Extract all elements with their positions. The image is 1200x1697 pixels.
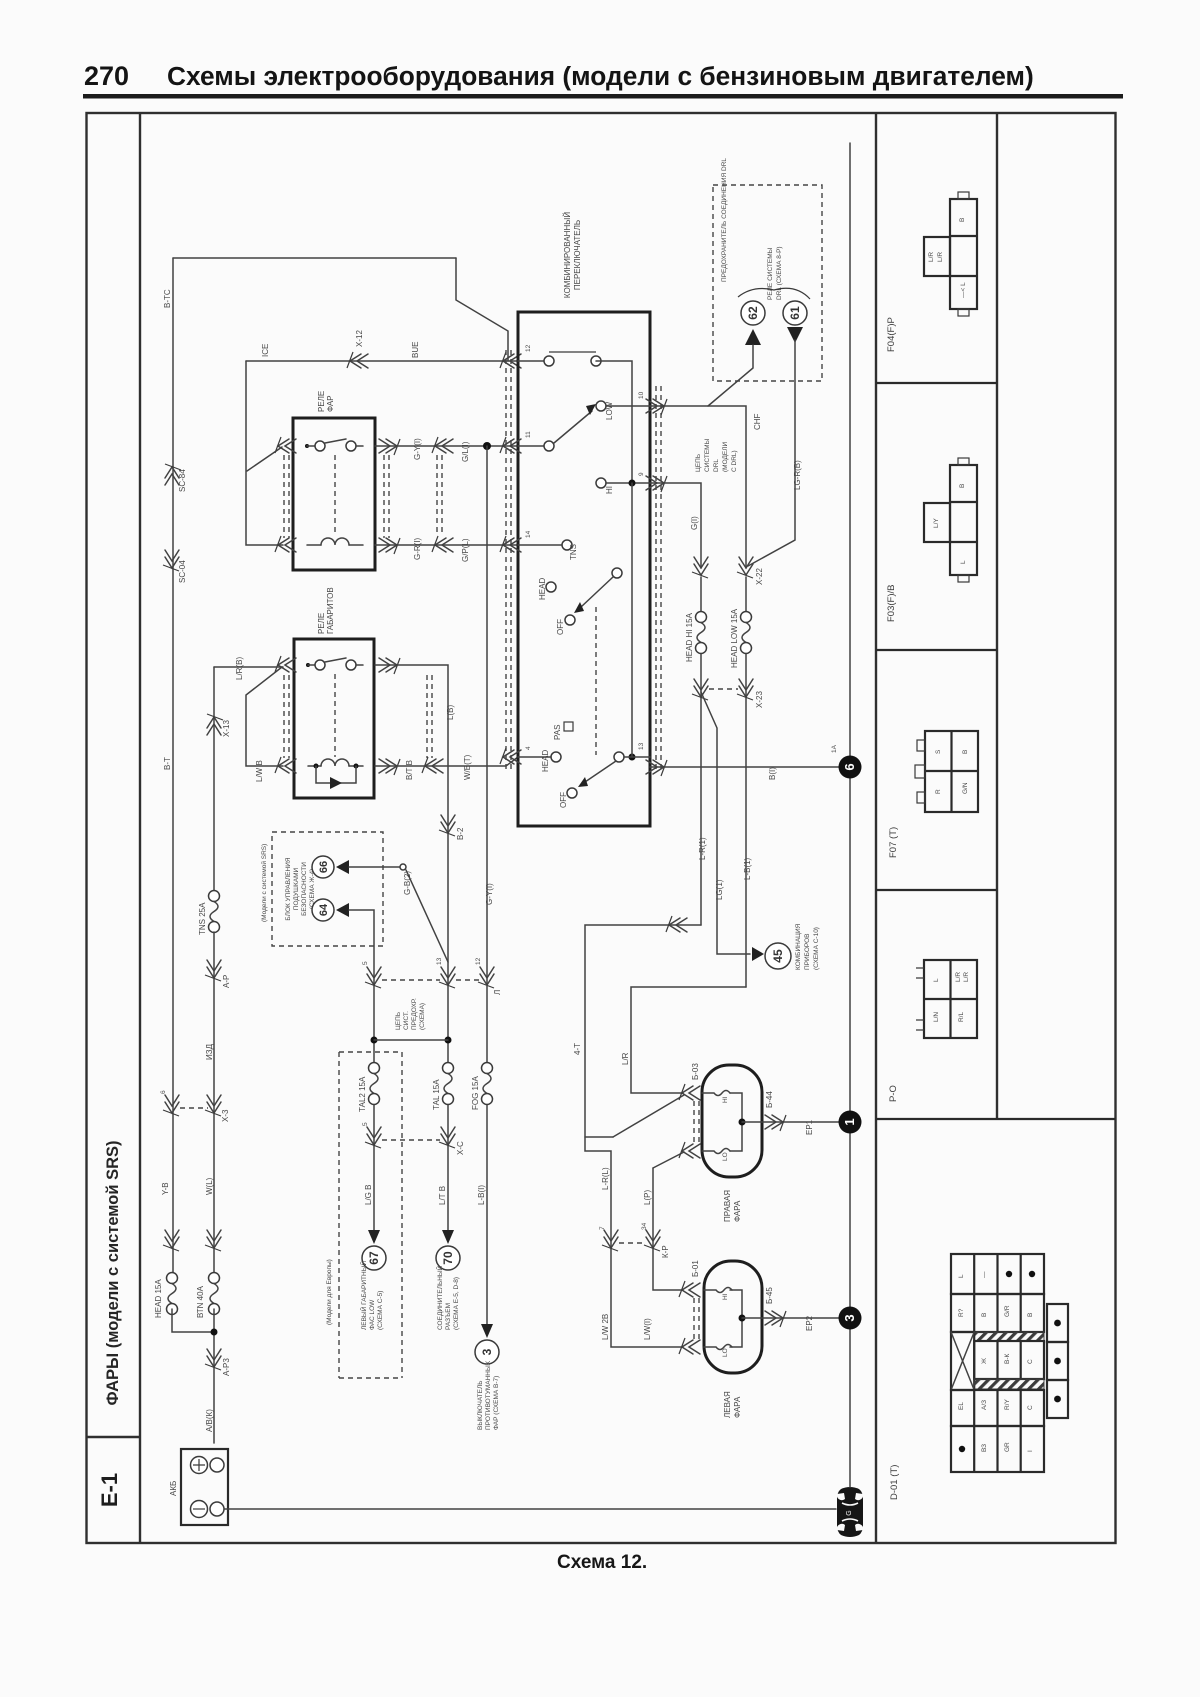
svg-text:61: 61 (788, 306, 802, 320)
svg-text:НЕАD: НЕАD (538, 578, 547, 600)
svg-text:5: 5 (362, 1122, 369, 1126)
wire 61 to LOW fuse (748, 340, 795, 566)
chevron x172 y472 (165, 464, 181, 485)
wire relay2 left top to x214 (214, 666, 283, 668)
fuse TNS 25A (209, 891, 220, 933)
svg-text:66: 66 (318, 861, 330, 873)
node 3 (839, 1307, 862, 1330)
svg-text:4-Т: 4-Т (573, 1043, 582, 1055)
chevron mid bottom row2 (422, 757, 443, 773)
svg-text:ТNS 25А: ТNS 25А (198, 902, 207, 935)
svg-text:1: 1 (842, 1118, 857, 1125)
wires below tail fuses (373, 1105, 375, 1230)
svg-text:ВЫКЛЮЧАТЕЛЬ: ВЫКЛЮЧАТЕЛЬ (477, 1381, 484, 1431)
svg-text:9: 9 (638, 472, 645, 476)
LOW output wire (606, 405, 650, 407)
svg-text:РАS: РАS (553, 725, 562, 740)
HI beam wire to corner (650, 483, 701, 568)
arrow at 66 (336, 860, 349, 874)
svg-text:А-Р: А-Р (222, 975, 231, 988)
wire relay2 out bottom to switch (375, 757, 518, 766)
arrow into meter circle (752, 947, 764, 961)
svg-text:КОМБИНАЦИЯ: КОМБИНАЦИЯ (795, 923, 802, 970)
svg-text:F07 (Т): F07 (Т) (888, 827, 899, 858)
svg-text:LG(1): LG(1) (715, 879, 724, 900)
fuse HEAD 15A (167, 1273, 178, 1315)
svg-text:L/Y: L/Y (933, 518, 940, 528)
svg-text:L-R(1): L-R(1) (698, 837, 707, 860)
right strip cell divider y383 (876, 382, 997, 384)
svg-text:LOW: LOW (605, 401, 614, 420)
branch to meter (701, 692, 750, 954)
svg-text:Е-1: Е-1 (97, 1473, 122, 1507)
bottom lever (585, 761, 616, 782)
HI contact (596, 478, 606, 488)
arrow into 3 (481, 1324, 493, 1338)
svg-text:F04(F)P: F04(F)P (886, 317, 897, 352)
connector icon P-O grid (916, 960, 977, 1038)
svg-text:6: 6 (160, 1090, 167, 1094)
switch pass contacts (544, 352, 632, 483)
svg-text:(Модели с системой SRS): (Модели с системой SRS) (260, 844, 268, 922)
bottom pivot contact (614, 752, 624, 762)
LOW beam wire to corner (650, 406, 746, 568)
mech dashed link (595, 607, 597, 755)
relay R2 side dashes left (284, 675, 289, 758)
chevron relay1 left bottom (275, 536, 296, 552)
svg-text:ЛЕВЫЙ ГАБАРИТНЫЙ: ЛЕВЫЙ ГАБАРИТНЫЙ (359, 1261, 368, 1330)
svg-text:R?: R? (958, 1308, 965, 1317)
svg-text:13: 13 (638, 742, 645, 750)
svg-text:Б-01: Б-01 (691, 1260, 700, 1277)
svg-text:ЦЕПЬ: ЦЕПЬ (695, 454, 702, 472)
diagonal 66 to x448 (406, 870, 448, 962)
svg-text:F03(F)/B: F03(F)/B (886, 585, 897, 622)
svg-text:ИЗД: ИЗД (205, 1043, 214, 1060)
circle ref 61 (783, 301, 807, 325)
chevron relay2 right bottom (379, 759, 400, 775)
circle ref 62 (741, 301, 765, 325)
svg-text:А/В(К): А/В(К) (205, 1409, 214, 1432)
svg-text:3: 3 (480, 1348, 494, 1355)
relay R1 side connector dashes left (284, 455, 289, 538)
battery G1 (181, 1449, 228, 1525)
svg-text:НI: НI (605, 486, 614, 494)
svg-text:LО: LО (722, 1152, 729, 1161)
svg-text:11: 11 (525, 431, 532, 438)
dashed row y1243 (619, 1242, 645, 1244)
right strip cell divider y650 (876, 649, 997, 651)
wire BTN fuse to battery (213, 1309, 215, 1443)
svg-text:L/R: L/R (928, 252, 935, 262)
svg-text:ТАL 15А: ТАL 15А (432, 1079, 441, 1110)
svg-text:S: S (935, 749, 942, 754)
svg-text:В-2: В-2 (456, 827, 465, 840)
svg-text:БЛОК УПРАВЛЕНИЯ: БЛОК УПРАВЛЕНИЯ (285, 857, 292, 920)
svg-text:ФАС LOW: ФАС LOW (369, 1299, 376, 1330)
HEAD mark circle (546, 582, 556, 592)
svg-text:G/L(I): G/L(I) (461, 441, 470, 462)
wire top feed drop (456, 258, 508, 361)
svg-text:ЦЕПЬ: ЦЕПЬ (395, 1012, 402, 1030)
svg-text:I: I (1027, 1450, 1034, 1452)
svg-text:G-Y(I): G-Y(I) (413, 438, 422, 460)
lever pivot upper right (612, 568, 622, 578)
svg-text:L: L (958, 1274, 965, 1278)
svg-text:ПРОТИВОТУМАННЫХ: ПРОТИВОТУМАННЫХ (485, 1360, 492, 1430)
circle ref 3 (475, 1340, 499, 1364)
svg-text:R/L: R/L (958, 1012, 965, 1023)
svg-text:СИСТ.: СИСТ. (403, 1011, 410, 1030)
connector icon F03 column (950, 458, 977, 582)
wire x214 below TNS (213, 932, 215, 1272)
arrow into 67 (368, 1230, 380, 1244)
svg-text:С DRL): С DRL) (731, 450, 738, 472)
svg-text:W/В(Т): W/В(Т) (463, 754, 472, 780)
svg-text:LG-R(В): LG-R(В) (793, 460, 802, 490)
svg-text:ФАРЫ (модели с системой SRS): ФАРЫ (модели с системой SRS) (104, 1140, 122, 1405)
svg-text:(СХЕМА Е-5, D-8): (СХЕМА Е-5, D-8) (453, 1277, 460, 1330)
svg-text:45: 45 (771, 949, 785, 963)
svg-text:ОFF: ОFF (559, 792, 568, 808)
svg-text:L/Т В: L/Т В (438, 1186, 447, 1205)
svg-text:ФАРА: ФАРА (733, 1396, 742, 1418)
svg-text:12: 12 (525, 344, 532, 352)
svg-text:НЕАD 15А: НЕАD 15А (154, 1279, 163, 1318)
relay R1 mech dashed link (334, 455, 336, 536)
LOW distribution wire (631, 987, 746, 1093)
wire HEAD fuse to merge (172, 1309, 214, 1332)
svg-text:W(L): W(L) (205, 1177, 214, 1195)
switch dimmer pivot (544, 441, 554, 451)
svg-text:ОFF: ОFF (556, 619, 565, 635)
junction dots y1040 (371, 1037, 378, 1044)
svg-text:ВЗ: ВЗ (981, 1444, 988, 1452)
chevrons entering right lamp (679, 1084, 700, 1100)
dashes before left lamp (694, 1298, 699, 1340)
fuse TAIL2 15A (369, 1063, 380, 1105)
wire terminal12 horizontal (246, 360, 518, 362)
svg-text:С: С (1027, 1405, 1034, 1410)
chevron below HI fuse (692, 679, 708, 700)
combination switch box (518, 312, 650, 826)
D-01 rows 4-5 (951, 1390, 1044, 1472)
wire 62 to LOW (708, 345, 753, 406)
svg-text:FОG 15А: FОG 15А (471, 1076, 480, 1110)
PAS square (564, 722, 573, 731)
chevron y925 (666, 916, 687, 932)
svg-text:R/Y: R/Y (1004, 1399, 1011, 1411)
switch right dashed bus (656, 386, 661, 772)
chevron mid top (432, 437, 453, 453)
svg-text:270: 270 (84, 61, 129, 91)
svg-text:L(Р): L(Р) (643, 1190, 652, 1205)
fuse TAIL 15A (443, 1063, 454, 1105)
svg-text:К-Р: К-Р (661, 1245, 670, 1258)
wires below head fuses (700, 654, 702, 925)
chevron lamp out left (765, 1311, 786, 1327)
chevron mid bottom (432, 536, 453, 552)
left strip divider (139, 113, 141, 1543)
svg-text:ПОДУШКАМИ: ПОДУШКАМИ (293, 867, 300, 910)
relay R1 coil (307, 538, 363, 545)
svg-text:5: 5 (362, 961, 369, 965)
diagonal to right lamp hi (613, 1095, 684, 1137)
svg-text:ПРИБОРОВ: ПРИБОРОВ (804, 933, 811, 970)
wire relay2 out top to corner (375, 665, 448, 1068)
DRL dashed box (713, 185, 822, 381)
relay R1 side connector dashes right (384, 455, 389, 538)
arrow into 70 (442, 1230, 454, 1244)
battery ground wire (224, 1508, 836, 1510)
svg-text:Y-В: Y-В (161, 1182, 170, 1195)
wire left loop vertical (246, 361, 283, 545)
svg-text:G/R: G/R (1004, 1305, 1011, 1317)
svg-text:Х-С: Х-С (456, 1141, 465, 1155)
bottom stub (518, 756, 551, 758)
node 6 (831, 744, 862, 778)
dashed box euro models (339, 1052, 402, 1378)
chevron relay2 left bottom (275, 757, 296, 773)
svg-text:L/R: L/R (955, 972, 962, 982)
connector icon F03 left box (924, 503, 950, 542)
chevrons entering left lamp (679, 1281, 700, 1297)
svg-text:ФАР (СХЕМА В-7): ФАР (СХЕМА В-7) (493, 1376, 500, 1430)
svg-text:L/R(В): L/R(В) (235, 657, 244, 680)
svg-text:НI: НI (722, 1293, 729, 1300)
svg-text:4: 4 (525, 746, 532, 750)
bracket over 62 61 (738, 288, 810, 299)
D-01 hatched bar upper (974, 1332, 1044, 1341)
svg-text:ЛЕВАЯ: ЛЕВАЯ (723, 1391, 732, 1418)
wire relay1 out bottom (375, 544, 518, 546)
svg-text:D-01 (Т): D-01 (Т) (889, 1465, 900, 1500)
svg-text:Б-44: Б-44 (765, 1091, 774, 1108)
circle ref 66 (312, 856, 334, 878)
svg-text:СОЕДИНИТЕЛЬНЫЙ: СОЕДИНИТЕЛЬНЫЙ (435, 1265, 444, 1330)
svg-text:РЕЛЕ: РЕЛЕ (317, 391, 326, 412)
svg-text:L/R: L/R (937, 252, 944, 262)
relay R2 box (294, 639, 374, 798)
arrow at 64 (336, 903, 349, 917)
chevron x172 y563 (163, 550, 179, 571)
switch left dashed bus (506, 350, 511, 772)
dashed connector row y1108 (180, 1107, 208, 1109)
svg-text:С: С (1027, 1359, 1034, 1364)
svg-text:Схема 12.: Схема 12. (557, 1552, 647, 1573)
svg-text:L-R(L): L-R(L) (601, 1167, 610, 1190)
stub y1137 (585, 1136, 613, 1138)
relay R2 coil with diode (308, 759, 363, 789)
HI junction dot (629, 480, 636, 487)
svg-text:DRL (СХЕМА 8-Р): DRL (СХЕМА 8-Р) (776, 246, 783, 300)
inline connector dashes mid (437, 455, 442, 536)
svg-text:(МОДЕЛИ: (МОДЕЛИ (722, 442, 729, 472)
svg-text:ФАРА: ФАРА (733, 1200, 742, 1222)
diagonal to right lamp low (653, 1152, 684, 1168)
svg-text:СИСТЕМЫ: СИСТЕМЫ (704, 438, 711, 472)
svg-text:НЕАD LOW 15А: НЕАD LOW 15А (730, 608, 739, 668)
svg-text:ПРЕДОХР.: ПРЕДОХР. (411, 998, 418, 1030)
svg-text:НЕАD: НЕАD (541, 750, 550, 772)
circle ref 45 meter (765, 943, 791, 969)
wire TNS drop x214 (213, 667, 215, 890)
HI output wire (606, 482, 650, 484)
HI distribution wire (585, 925, 701, 1347)
svg-text:(СХЕМА): (СХЕМА) (419, 1003, 426, 1030)
svg-text:SС-04: SС-04 (178, 560, 187, 583)
svg-text:РЕЛЕ СИСТЕМЫ: РЕЛЕ СИСТЕМЫ (767, 247, 774, 300)
svg-text:64: 64 (318, 903, 330, 916)
svg-text:В: В (962, 750, 969, 754)
diagonal relay2 left (246, 667, 283, 766)
svg-text:В: В (1027, 1313, 1034, 1317)
svg-text:Х-22: Х-22 (755, 568, 764, 585)
lever upper (581, 577, 613, 607)
svg-text:L(В): L(В) (446, 705, 455, 720)
LOW contact (596, 401, 606, 411)
relay R2 contact (306, 658, 363, 670)
svg-text:L/N: L/N (933, 1012, 940, 1022)
svg-text:L/R: L/R (621, 1052, 630, 1065)
chevron top HEAD LOW fuse (737, 557, 753, 578)
svg-text:G(I): G(I) (690, 516, 699, 530)
svg-text:ТNS: ТNS (569, 544, 578, 560)
fuse BTN 40A (209, 1273, 220, 1315)
svg-text:ПРЕДОХРАНИТЕЛЬ СОЕДИНЕНИЯ DRL: ПРЕДОХРАНИТЕЛЬ СОЕДИНЕНИЯ DRL (721, 158, 728, 282)
svg-text:10: 10 (638, 391, 645, 399)
svg-text:ФАР: ФАР (326, 395, 335, 412)
chevron x214 y973 (205, 960, 221, 981)
switch lever to LOW (554, 411, 592, 443)
svg-text:А-Р3: А-Р3 (222, 1358, 231, 1376)
left strip cell divider (87, 1436, 141, 1438)
diagram outer frame (87, 113, 1116, 1543)
svg-text:G-R(I): G-R(I) (413, 537, 422, 560)
bottom OFF contact (567, 788, 577, 798)
circle ref 67 (362, 1246, 386, 1270)
wire top feed horizontal (173, 257, 456, 259)
left hi drop (653, 1168, 683, 1290)
switch bottom out to node6 (650, 766, 839, 768)
svg-text:ЕL: ЕL (958, 1402, 965, 1410)
header rule (83, 94, 1123, 99)
circle ref 70 (436, 1246, 460, 1270)
svg-text:В/Т В: В/Т В (405, 760, 414, 780)
svg-text:ВТN 40А: ВТN 40А (196, 1285, 205, 1318)
chevron relay1 left top (275, 437, 296, 453)
svg-text:12: 12 (475, 957, 482, 965)
svg-text:L/W(I): L/W(I) (643, 1318, 652, 1340)
svg-text:67: 67 (367, 1251, 381, 1265)
svg-text:Б-45: Б-45 (765, 1287, 774, 1304)
D-01 connector grid rows 1-2 (951, 1254, 1044, 1332)
svg-text:G/Р(L): G/Р(L) (461, 538, 470, 562)
svg-text:А/З: А/З (981, 1400, 988, 1410)
chevron top HEAD HI fuse (692, 557, 708, 578)
fuse HEAD HI 15A (700, 577, 702, 611)
D-01 X cell (951, 1332, 974, 1390)
svg-text:6: 6 (842, 763, 857, 770)
bottom junction dot (629, 754, 636, 761)
right area full divider y1119 (876, 1118, 1115, 1120)
chevron relay1 right bottom (379, 538, 400, 554)
svg-text:В-К: В-К (1004, 1354, 1011, 1365)
svg-text:L-В(I): L-В(I) (477, 1185, 486, 1205)
svg-text:L/R: L/R (963, 972, 970, 982)
svg-text:Х-23: Х-23 (755, 691, 764, 708)
chevron relay1 right top (379, 439, 400, 455)
svg-text:G: G (846, 1510, 853, 1515)
svg-text:Ж: Ж (981, 1358, 988, 1364)
svg-text:ВUЕ: ВUЕ (411, 342, 420, 358)
svg-text:В-ТС: В-ТС (163, 289, 172, 308)
svg-text:Л: Л (493, 990, 502, 995)
svg-text:(СХЕМА С-10): (СХЕМА С-10) (813, 927, 820, 970)
svg-text:3: 3 (842, 1314, 857, 1321)
dashed link between (709, 688, 738, 690)
svg-text:L: L (933, 978, 940, 982)
svg-text:L/W 2В: L/W 2В (601, 1314, 610, 1340)
fuse HEAD LOW 15A (745, 577, 747, 611)
D-01 hatched bar lower (974, 1379, 1044, 1389)
svg-text:Схемы электрооборудования (мод: Схемы электрооборудования (модели с бенз… (167, 61, 1034, 91)
diagonal relay1 contact branch (247, 447, 282, 471)
left headlamp LH (704, 1261, 839, 1373)
svg-text:GR: GR (1004, 1442, 1011, 1452)
connector icon F07 grid (915, 731, 978, 812)
svg-text:IСЕ: IСЕ (261, 344, 270, 357)
svg-text:DRL: DRL (713, 459, 720, 472)
dashed connector row y980 (382, 979, 479, 981)
svg-text:БЕЗОПАСНОСТИ: БЕЗОПАСНОСТИ (301, 862, 308, 916)
car body ground icon (837, 1487, 863, 1537)
chevrons at switch buses (500, 437, 521, 453)
svg-text:L-В(1): L-В(1) (743, 857, 752, 880)
chevron on t12 wire (347, 352, 368, 368)
chevron x448 y828 (439, 815, 455, 836)
switch terminal stubs (518, 361, 544, 446)
chevron below LOW fuse (737, 679, 753, 700)
svg-text:Б-03: Б-03 (691, 1063, 700, 1080)
wire 66 out (349, 866, 400, 868)
wire 64 out to drop (349, 910, 374, 1068)
svg-text:ПЕРЕКЛЮЧАТЕЛЬ: ПЕРЕКЛЮЧАТЕЛЬ (573, 220, 582, 290)
OFF contact upper (565, 615, 575, 625)
svg-text:СНF: СНF (753, 413, 762, 430)
TNS contact (562, 540, 572, 550)
arrow down from 61 (787, 327, 803, 343)
fuse FOG 15A (486, 446, 488, 1068)
svg-text:LО: LО (722, 1348, 729, 1357)
chevron x214 y1360 (205, 1349, 221, 1370)
svg-text:G/N: G/N (962, 782, 969, 794)
right column divider x876 (875, 113, 877, 1543)
chevron x214 y722 (207, 714, 223, 735)
svg-text:КОМБИНИРОВАННЫЙ: КОМБИНИРОВАННЫЙ (563, 212, 572, 298)
TNS stub wire (518, 544, 562, 546)
svg-text:(СХЕМА С-5): (СХЕМА С-5) (377, 1291, 384, 1330)
svg-text:АКБ: АКБ (169, 1481, 178, 1496)
node 1 (839, 1111, 862, 1134)
chevron lamp out right (765, 1115, 786, 1131)
right strip cell divider y890 (876, 889, 997, 891)
svg-text:РЕЛЕ: РЕЛЕ (317, 613, 326, 634)
svg-text:ПРАВАЯ: ПРАВАЯ (723, 1190, 732, 1222)
chevron at bus t12 (500, 352, 521, 368)
svg-text:НЕАD НI 15А: НЕАD НI 15А (685, 612, 694, 662)
svg-text:13: 13 (436, 957, 443, 965)
